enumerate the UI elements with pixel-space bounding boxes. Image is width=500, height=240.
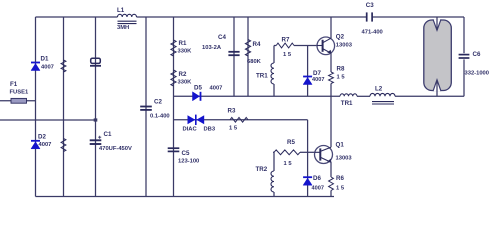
designator label L2 <box>375 86 383 93</box>
svg-text:R4: R4 <box>253 41 261 48</box>
svg-text:471-400: 471-400 <box>362 30 383 36</box>
wire smoothing cap column <box>95 17 97 197</box>
capacitor C3 <box>367 12 372 21</box>
value label FUSE1 <box>10 90 29 96</box>
svg-text:R2: R2 <box>179 71 187 78</box>
transformer winding TR1 (base) <box>271 63 274 84</box>
wire Q1 base branch <box>273 151 315 153</box>
svg-text:C2: C2 <box>154 99 162 106</box>
value label 330K (R2) <box>178 80 193 86</box>
svg-text:4007: 4007 <box>41 65 54 71</box>
designator label C4 <box>218 34 226 41</box>
designator label C3 <box>366 2 374 9</box>
value label 103-2A <box>202 45 222 51</box>
designator label TR1 (base winding) <box>256 73 268 80</box>
wire top rail (DC+ bus) <box>36 16 465 18</box>
designator label R5 <box>287 139 295 146</box>
wire AC live input with fuse <box>0 100 36 102</box>
designator label R4 <box>253 41 261 48</box>
svg-text:TR2: TR2 <box>256 166 268 173</box>
wire bridge column 1 <box>35 17 37 197</box>
transistor Q2 <box>317 37 335 55</box>
svg-text:C3: C3 <box>366 2 374 9</box>
designator label DIAC <box>183 127 198 133</box>
wire Q2 base branch <box>274 45 317 47</box>
wire AC neutral input <box>0 119 96 121</box>
svg-text:1 5: 1 5 <box>229 126 238 132</box>
wire R1/R2 divider column <box>173 17 175 197</box>
node AC neutral / capacitor midpoint junction <box>94 118 98 121</box>
capacitor (upper electrolytic) <box>90 58 101 66</box>
svg-text:L2: L2 <box>375 86 383 93</box>
diode D5 <box>193 92 201 101</box>
designator label R6 <box>336 175 344 182</box>
value label 13003 (Q1) <box>336 156 353 162</box>
svg-text:680K: 680K <box>247 59 262 65</box>
value label 3MH <box>117 25 129 31</box>
svg-text:4007: 4007 <box>312 186 324 192</box>
inductor L2 <box>370 93 395 104</box>
svg-text:4007: 4007 <box>39 142 52 148</box>
designator label Q1 <box>336 142 345 149</box>
svg-text:D6: D6 <box>313 175 321 182</box>
resistor (lower bleeder) <box>61 139 66 152</box>
designator label D2 <box>38 134 46 141</box>
svg-text:C5: C5 <box>182 150 190 157</box>
wire C4 column <box>233 17 235 96</box>
value label 4007 (D5) <box>210 86 223 92</box>
capacitor C4 <box>228 52 239 55</box>
diode D2 <box>31 141 40 149</box>
wire R6 to bottom rail <box>330 191 332 197</box>
wire Q2 collector to top rail <box>330 17 332 38</box>
designator label R2 <box>179 71 187 78</box>
svg-text:C1: C1 <box>104 131 112 138</box>
wire Q1 emitter to R6 <box>330 162 332 177</box>
wire D7 column <box>307 46 309 97</box>
resistor R8 <box>329 72 334 84</box>
diode D7 <box>303 77 312 85</box>
wire midpoint rail to lamp <box>174 95 465 97</box>
fluorescent lamp tube <box>424 19 452 91</box>
svg-text:3MH: 3MH <box>117 25 129 31</box>
designator label R3 <box>228 108 236 115</box>
svg-text:Q1: Q1 <box>336 142 345 149</box>
wire TR2 winding column <box>273 152 275 196</box>
svg-text:R3: R3 <box>228 108 236 115</box>
diode D1 <box>31 63 40 71</box>
value label 15 (R3) <box>229 126 238 132</box>
svg-text:D2: D2 <box>38 134 46 141</box>
resistor R7 <box>276 43 294 48</box>
svg-text:FUSE1: FUSE1 <box>10 90 29 96</box>
svg-text:F1: F1 <box>10 81 18 88</box>
svg-text:R8: R8 <box>337 66 345 73</box>
designator label D1 <box>41 56 49 63</box>
value label 0.1-400 <box>150 114 170 120</box>
diode D6 <box>303 177 312 185</box>
wire bottom rail (DC- bus) <box>36 196 335 198</box>
designator label C1 <box>104 131 112 138</box>
designator label Q2 <box>336 34 345 41</box>
capacitor C1 <box>90 136 102 144</box>
svg-text:1 5: 1 5 <box>283 52 292 58</box>
svg-text:DIAC: DIAC <box>183 127 198 133</box>
resistor R4 <box>245 40 250 57</box>
svg-text:D7: D7 <box>313 70 321 77</box>
svg-text:Q2: Q2 <box>336 34 345 41</box>
diac symbol <box>188 115 205 125</box>
wire lamp top stub <box>436 17 438 30</box>
value label 15 (R6) <box>336 186 345 192</box>
wire C6 column <box>463 17 465 96</box>
value label 471-400 <box>362 30 383 36</box>
value label 330K (R1) <box>178 49 193 55</box>
transformer TR1 primary winding <box>340 94 357 96</box>
svg-text:TR1: TR1 <box>341 100 353 107</box>
value label 680K <box>247 59 262 65</box>
designator label D7 <box>313 70 321 77</box>
wire diac to Q1 base / D6 column <box>307 120 309 197</box>
fuse F1 <box>11 98 27 103</box>
wire diac branch <box>174 119 308 121</box>
svg-text:13003: 13003 <box>336 43 353 49</box>
svg-text:L1: L1 <box>117 7 125 14</box>
designator label F1 <box>10 81 18 88</box>
svg-text:1 5: 1 5 <box>337 75 346 81</box>
svg-text:0.1-400: 0.1-400 <box>150 114 170 120</box>
wire R8 to midpoint <box>330 84 332 97</box>
capacitor C2 <box>140 107 152 110</box>
designator label C2 <box>154 99 162 106</box>
resistor R1 <box>171 40 176 56</box>
svg-text:R7: R7 <box>282 37 290 44</box>
wire bridge column 2 <box>63 17 65 197</box>
designator label L1 <box>117 7 125 14</box>
svg-text:D1: D1 <box>41 56 49 63</box>
value label 15 (R5) <box>284 161 293 167</box>
svg-text:332-1000: 332-1000 <box>465 71 490 77</box>
svg-text:1 5: 1 5 <box>284 161 293 167</box>
value label 4007 (D6) <box>312 186 324 192</box>
svg-text:4007: 4007 <box>312 77 324 83</box>
designator label R8 <box>337 66 345 73</box>
value label 4007 (D2) <box>39 142 52 148</box>
designator label TR2 <box>256 166 268 173</box>
svg-text:DB3: DB3 <box>204 127 216 133</box>
transistor Q1 <box>315 146 333 164</box>
value label 4007 (D7) <box>312 77 324 83</box>
resistor R3 <box>230 117 248 122</box>
designator label C5 <box>182 150 190 157</box>
resistor R6 <box>329 177 334 191</box>
wire Q2 emitter to R8 <box>330 53 332 72</box>
designator label C6 <box>473 51 481 58</box>
svg-text:470UF-450V: 470UF-450V <box>99 146 132 152</box>
designator label R7 <box>282 37 290 44</box>
capacitor C5 <box>168 148 180 151</box>
designator label D5 <box>194 85 202 92</box>
inductor L1 <box>118 14 137 23</box>
wire lamp bottom stub <box>436 81 438 97</box>
resistor (upper bleeder) <box>61 60 66 72</box>
svg-text:C6: C6 <box>473 51 481 58</box>
designator label D6 <box>313 175 321 182</box>
svg-text:R6: R6 <box>336 175 344 182</box>
svg-text:13003: 13003 <box>336 156 353 162</box>
wire midpoint to Q1 collector <box>330 96 332 147</box>
wire C2 column <box>145 17 147 197</box>
svg-text:1 5: 1 5 <box>336 186 345 192</box>
transformer winding TR2 (base) <box>271 171 274 192</box>
value label 4007 (D1) <box>41 65 54 71</box>
svg-text:TR1: TR1 <box>256 73 268 80</box>
designator label TR1 (primary) <box>341 100 353 107</box>
wire R4 column <box>247 17 249 96</box>
svg-text:C4: C4 <box>218 34 226 41</box>
value label 123-100 <box>178 159 199 165</box>
svg-text:330K: 330K <box>178 49 193 55</box>
value label 470UF-450V <box>99 146 132 152</box>
designator label R1 <box>179 40 187 47</box>
svg-text:R1: R1 <box>179 40 187 47</box>
value label 13003 (Q2) <box>336 43 353 49</box>
value label 332-1000 <box>465 71 490 77</box>
resistor R2 <box>171 70 176 86</box>
svg-text:4007: 4007 <box>210 86 223 92</box>
value label 15 (R8) <box>337 75 346 81</box>
svg-text:330K: 330K <box>178 80 193 86</box>
capacitor C6 <box>459 55 470 58</box>
svg-text:123-100: 123-100 <box>178 159 199 165</box>
svg-text:D5: D5 <box>194 85 202 92</box>
value label 15 (R7) <box>283 52 292 58</box>
svg-text:R5: R5 <box>287 139 295 146</box>
value label DB3 <box>204 127 216 133</box>
wire TR1 base winding column <box>273 46 275 97</box>
resistor R5 <box>274 150 300 155</box>
svg-text:103-2A: 103-2A <box>202 45 222 51</box>
